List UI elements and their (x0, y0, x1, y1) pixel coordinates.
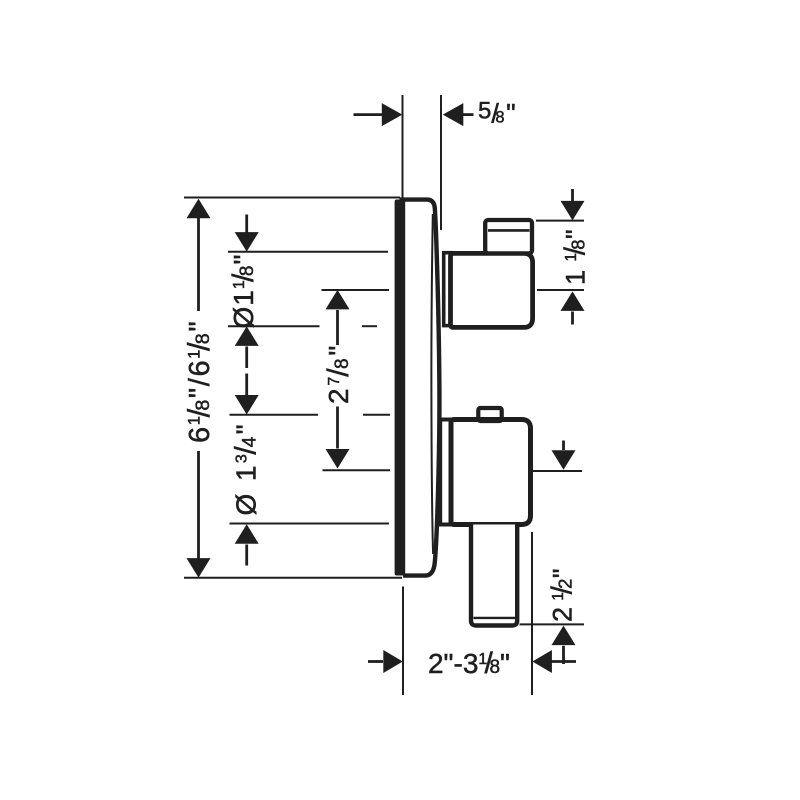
5/8 dim right arrowhead (443, 103, 464, 126)
dia 1-1/8 up arrowhead (235, 326, 259, 346)
bottom dim left arrowhead (383, 650, 403, 673)
bottom dim right shaft (552, 660, 577, 663)
bottom dim left shaft (368, 660, 383, 663)
upper handle centerline right segment (537, 289, 584, 291)
reference line lower edge dia 1-3/4 seg2 (363, 414, 390, 416)
6-1/8 dim line upper shaft (197, 217, 200, 311)
extension line left of 5/8 dim (402, 95, 404, 199)
upper handle connector (444, 253, 452, 326)
lower handle connector (440, 420, 451, 525)
6-1/8 dim line lower shaft (197, 451, 200, 559)
dia 1-3/4 lower shaft (245, 545, 248, 566)
svg-text:27/8": 27/8" (322, 343, 355, 404)
1-1/8 dim lower shaft (571, 312, 574, 325)
upper handle body (451, 253, 533, 327)
plate front face bar (395, 200, 406, 576)
dia 1-3/4 upper shaft (245, 374, 248, 396)
lower handle body (451, 420, 531, 525)
1-1/8 dim upper shaft (571, 189, 574, 202)
2-7/8 up arrowhead (326, 290, 350, 310)
6-1/8 up arrowhead (187, 199, 211, 219)
1-1/8 up arrowhead (561, 291, 585, 311)
lever bottom reference line (520, 623, 585, 625)
1-1/8 down arrowhead (561, 201, 585, 221)
5/8 dim right shaft (463, 113, 474, 116)
lower handle centerline left segment (323, 469, 391, 471)
2-1/2 up arrowhead (552, 626, 576, 646)
lower handle centerline right segment (533, 470, 582, 472)
dia 1-3/4 down arrowhead (235, 395, 259, 415)
bottom dim left extension line (402, 587, 404, 696)
plate face thin curve (431, 214, 433, 554)
dia 1-1/8 down arrowhead (235, 232, 259, 252)
reference line top of upper handle (228, 251, 388, 253)
2-7/8 upper shaft (336, 310, 339, 345)
knob top reference line (536, 220, 584, 222)
lever inner line (474, 617, 516, 619)
bottom dim right extension line (531, 532, 533, 695)
reference line bottom of upper handle seg2 (362, 325, 377, 327)
5/8 dim left shaft (354, 113, 384, 116)
bottom dim right arrowhead (532, 650, 552, 673)
top reference line (plate top) (184, 197, 400, 199)
dia 1-3/4 up arrowhead (235, 524, 259, 544)
lever handle (471, 525, 517, 626)
5/8 dim left arrowhead (382, 103, 403, 126)
extension line right of 5/8 dim (440, 95, 442, 230)
2-7/8 down arrowhead (326, 449, 350, 469)
knob inner line (488, 229, 530, 232)
2-1/2 dim lower shaft (562, 646, 565, 664)
upper handle centerline left segment (322, 289, 390, 291)
6-1/8 down arrowhead (187, 558, 211, 578)
plate outline (400, 200, 440, 576)
svg-text:5/8": 5/8" (478, 98, 516, 129)
temperature knob (485, 220, 532, 253)
bottom reference line (plate bottom) (184, 577, 402, 579)
dia 1-1/8 upper shaft (245, 215, 248, 234)
reference line bottom of upper handle seg1 (228, 325, 320, 327)
2-1/2 down arrowhead (552, 450, 576, 470)
diverter tab (478, 408, 501, 421)
2-7/8 lower shaft (336, 407, 339, 449)
dia 1-1/8 lower shaft (245, 347, 248, 369)
svg-text:Ø11/8": Ø11/8" (227, 254, 260, 329)
svg-text:2 1/2": 2 1/2" (547, 568, 579, 622)
reference line bottom of lower handle (230, 523, 390, 525)
reference line lower edge dia 1-3/4 seg1 (230, 414, 319, 416)
2-1/2 dim upper shaft (562, 441, 565, 451)
